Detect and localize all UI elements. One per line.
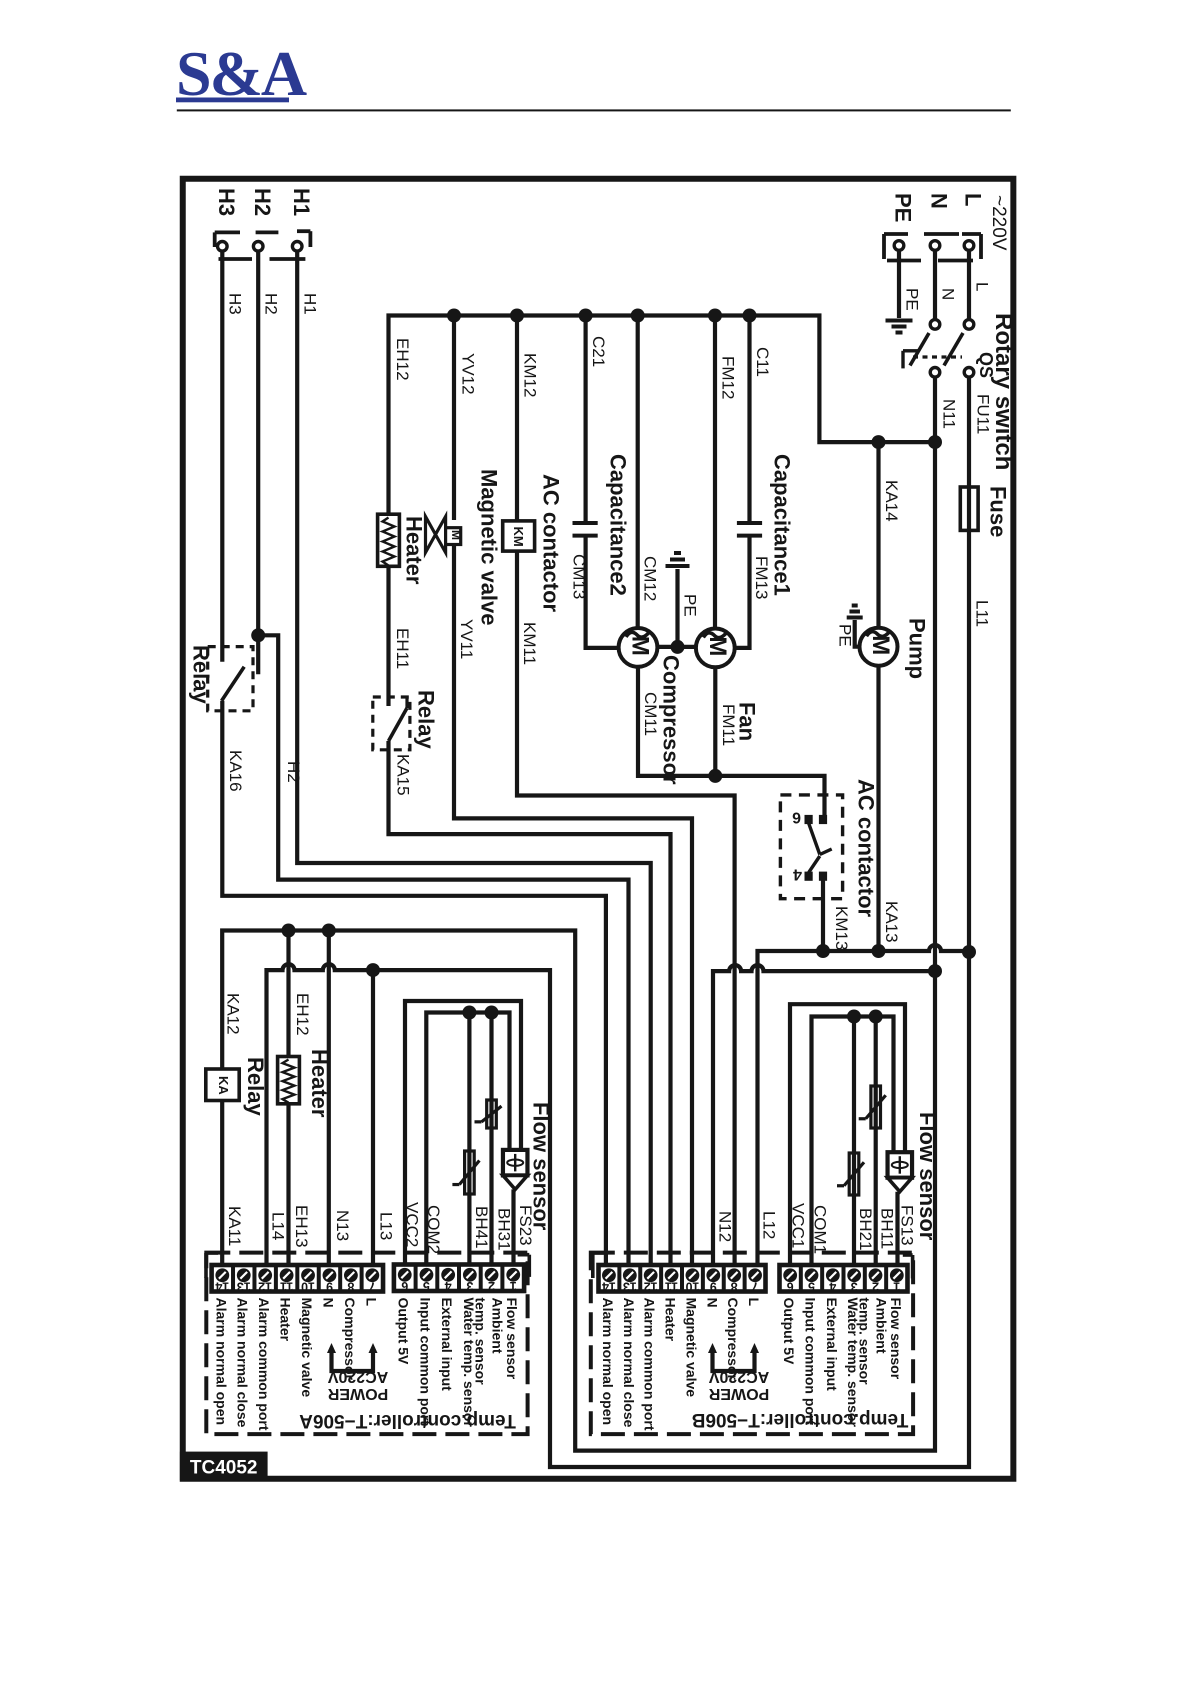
svg-text:3: 3 bbox=[466, 1279, 473, 1293]
wire FS13 to terminal 1 bbox=[895, 1192, 899, 1265]
svg-text:Magnetic valve: Magnetic valve bbox=[683, 1298, 699, 1398]
svg-text:6: 6 bbox=[792, 809, 801, 826]
wire KM12 bbox=[515, 316, 519, 523]
svg-text:Output 5V: Output 5V bbox=[781, 1298, 797, 1366]
svg-text:10: 10 bbox=[685, 1279, 699, 1293]
svg-text:11: 11 bbox=[665, 1279, 678, 1293]
header rule bbox=[177, 109, 1011, 111]
svg-text:L11: L11 bbox=[973, 600, 992, 627]
svg-text:Flow sensor: Flow sensor bbox=[888, 1298, 904, 1380]
svg-text:Heater: Heater bbox=[402, 516, 427, 585]
svg-text:9: 9 bbox=[326, 1279, 333, 1293]
temp controller T-506B dashed box bbox=[591, 1253, 913, 1435]
junction dot H2 branch bbox=[251, 628, 265, 642]
wire L bus A with hop over N11 bbox=[758, 945, 970, 1265]
thermistor BH21 bbox=[849, 1153, 859, 1195]
svg-text:Output 5V: Output 5V bbox=[396, 1298, 412, 1366]
svg-text:8: 8 bbox=[347, 1279, 354, 1293]
wire KA14 pump feed bbox=[876, 442, 880, 628]
svg-text:PE: PE bbox=[681, 594, 700, 617]
AC contactor KM13 dashed box bbox=[780, 795, 842, 899]
svg-text:M: M bbox=[867, 635, 894, 655]
junction dot bus C N13 branch bbox=[322, 924, 336, 938]
svg-text:EH11: EH11 bbox=[393, 628, 412, 669]
svg-text:Compressor: Compressor bbox=[659, 655, 684, 785]
svg-text:EH12: EH12 bbox=[293, 993, 312, 1036]
rotary switch QS contact L1 bbox=[964, 320, 974, 330]
POWER AC220V arrows bbox=[332, 1352, 374, 1371]
junction dot BH21 bbox=[847, 1010, 861, 1024]
svg-text:Fuse: Fuse bbox=[986, 486, 1011, 537]
wire H2 jog to controller B bbox=[258, 635, 628, 1265]
svg-text:CM11: CM11 bbox=[641, 692, 660, 736]
svg-text:temp. sensor: temp. sensor bbox=[473, 1298, 489, 1386]
svg-text:FU11: FU11 bbox=[974, 394, 993, 434]
svg-text:YV11: YV11 bbox=[457, 619, 476, 659]
terminal H3 bbox=[218, 242, 228, 252]
svg-text:12: 12 bbox=[644, 1279, 658, 1293]
svg-text:10: 10 bbox=[301, 1279, 315, 1293]
pump PE ground bbox=[855, 620, 860, 647]
wire KA15 to controller B heater terminal bbox=[389, 741, 671, 1265]
svg-text:POWER: POWER bbox=[708, 1385, 769, 1402]
contactor coil KM box bbox=[503, 521, 535, 551]
wire H2 with branch bbox=[256, 251, 260, 674]
svg-text:AC220V: AC220V bbox=[708, 1368, 769, 1385]
wire L from terminal to switch bbox=[967, 251, 971, 320]
junction dot bus C heater branch bbox=[282, 924, 296, 938]
heater EH12 bottom symbol bbox=[278, 1057, 300, 1104]
svg-text:FS13: FS13 bbox=[898, 1205, 917, 1246]
controller A terminal block 14-7 bbox=[212, 1265, 383, 1292]
junction dot FM12 bbox=[708, 309, 722, 323]
svg-text:CM12: CM12 bbox=[641, 556, 660, 601]
svg-text:11: 11 bbox=[280, 1279, 293, 1293]
flow sensor FS13 symbol bbox=[888, 1152, 913, 1178]
svg-text:5: 5 bbox=[808, 1279, 815, 1293]
junction dot BH31 bbox=[485, 1006, 499, 1020]
svg-text:Temp.controller:T−506A: Temp.controller:T−506A bbox=[299, 1410, 516, 1431]
svg-text:Ambient: Ambient bbox=[873, 1298, 889, 1354]
wire N11 long down to bottom wrap bbox=[222, 377, 935, 1450]
magnetic valve symbol bbox=[426, 517, 436, 553]
svg-text:AC220V: AC220V bbox=[327, 1368, 388, 1385]
svg-text:4: 4 bbox=[793, 866, 802, 883]
relay KA16 dashed box bbox=[208, 647, 253, 711]
svg-text:L12: L12 bbox=[760, 1211, 779, 1239]
svg-text:KA15: KA15 bbox=[394, 754, 413, 796]
terminal brackets H group bbox=[213, 232, 217, 247]
wire KA13 pump to L bus bbox=[876, 666, 880, 951]
svg-text:6: 6 bbox=[401, 1279, 408, 1293]
svg-text:Relay: Relay bbox=[189, 645, 214, 704]
TC4052 title block bbox=[180, 1452, 268, 1481]
svg-text:Flow sensor: Flow sensor bbox=[529, 1102, 554, 1231]
svg-text:H2: H2 bbox=[284, 761, 303, 783]
wire KA16 to controller B alarm terminal bbox=[222, 701, 606, 1265]
pump motor bbox=[860, 628, 898, 666]
svg-text:H3: H3 bbox=[226, 293, 245, 315]
wire right N bus with hops bbox=[713, 965, 935, 1265]
wire BH41 thermistor branch bbox=[467, 1013, 471, 1266]
svg-text:Magnetic valve: Magnetic valve bbox=[299, 1298, 315, 1398]
svg-text:8: 8 bbox=[731, 1279, 738, 1293]
svg-text:4: 4 bbox=[445, 1279, 452, 1293]
KM13 contact arms bbox=[809, 823, 820, 854]
wire YV11 to controller B bbox=[454, 545, 692, 1266]
wire CM12 bbox=[636, 316, 640, 631]
capacitor C11 Capacitance1 bbox=[737, 521, 762, 525]
wire VCC1 bbox=[790, 1004, 905, 1265]
junction dot C11 bbox=[743, 309, 757, 323]
svg-text:FM13: FM13 bbox=[752, 556, 771, 599]
svg-text:H2: H2 bbox=[250, 188, 275, 216]
svg-text:L: L bbox=[973, 282, 992, 291]
svg-text:N11: N11 bbox=[940, 399, 959, 429]
svg-text:AC contactor: AC contactor bbox=[854, 779, 879, 918]
svg-text:4: 4 bbox=[829, 1279, 836, 1293]
svg-text:PE: PE bbox=[903, 288, 922, 311]
wire heater EH12 branch bbox=[286, 931, 290, 1059]
junction dot bus A at L11 bbox=[962, 945, 976, 959]
wire FM12 bbox=[713, 316, 717, 631]
svg-text:Flow sensor: Flow sensor bbox=[504, 1298, 520, 1380]
svg-text:BH31: BH31 bbox=[495, 1208, 514, 1251]
thermistor BH31 bbox=[487, 1100, 497, 1128]
junction dot KM12 bbox=[510, 309, 524, 323]
wire KM11 to controller B compressor terminal bbox=[517, 551, 735, 1265]
wire EH13 to terminal 11 bbox=[286, 1104, 290, 1265]
svg-text:EH12: EH12 bbox=[393, 338, 412, 381]
svg-text:EH13: EH13 bbox=[292, 1205, 311, 1248]
svg-text:L: L bbox=[961, 193, 986, 206]
svg-text:N: N bbox=[704, 1298, 720, 1308]
svg-text:1: 1 bbox=[510, 1279, 517, 1293]
svg-text:1: 1 bbox=[893, 1279, 900, 1293]
svg-text:External input: External input bbox=[439, 1298, 455, 1392]
svg-text:~220V: ~220V bbox=[988, 195, 1009, 251]
svg-text:Pump: Pump bbox=[905, 618, 930, 679]
terminal PE bbox=[894, 241, 904, 251]
junction dot L13 at left L bus bbox=[366, 963, 380, 977]
wire PE to ground bbox=[897, 251, 901, 319]
wire BH31 thermistor branch bbox=[489, 1013, 493, 1266]
svg-text:H1: H1 bbox=[301, 293, 320, 315]
svg-text:Relay: Relay bbox=[414, 690, 439, 749]
svg-text:C21: C21 bbox=[589, 336, 608, 367]
wire fan bottom bbox=[713, 667, 717, 776]
wire C11 upper bbox=[747, 316, 751, 524]
svg-text:H1: H1 bbox=[289, 188, 314, 216]
wire KM13 out to L bus bbox=[821, 880, 825, 951]
svg-text:Temp.controller:T−506B: Temp.controller:T−506B bbox=[692, 1409, 909, 1430]
wire L13 to terminal 7 bbox=[371, 970, 375, 1265]
svg-text:2: 2 bbox=[488, 1279, 495, 1293]
switch arm N bbox=[910, 333, 929, 366]
wire EH11 to relay KA15 bbox=[386, 566, 390, 706]
svg-text:2: 2 bbox=[872, 1279, 879, 1293]
junction dot N11 at N bus bbox=[928, 964, 942, 978]
svg-text:Magnetic valve: Magnetic valve bbox=[477, 469, 502, 626]
svg-text:YV12: YV12 bbox=[459, 353, 478, 395]
svg-text:KM11: KM11 bbox=[520, 622, 539, 665]
svg-text:POWER: POWER bbox=[327, 1385, 388, 1402]
wire COM2 bbox=[426, 1013, 509, 1266]
svg-text:FM12: FM12 bbox=[719, 356, 738, 399]
ground PE power entry bbox=[886, 319, 913, 323]
svg-text:N13: N13 bbox=[333, 1210, 352, 1241]
svg-text:KM13: KM13 bbox=[832, 906, 851, 950]
thermistor BH41 bbox=[465, 1151, 475, 1194]
junction dot BH41 bbox=[462, 1006, 476, 1020]
wire compressor bottom to KM13 bbox=[638, 667, 825, 816]
svg-text:M: M bbox=[627, 636, 654, 656]
wire compressor to fan bbox=[657, 645, 696, 649]
svg-text:9: 9 bbox=[710, 1279, 717, 1293]
svg-text:L: L bbox=[746, 1298, 762, 1307]
relay KA16 arm bbox=[222, 667, 245, 701]
wire VCC2 bbox=[405, 1001, 521, 1265]
junction dot CM12 bbox=[631, 309, 645, 323]
svg-text:BH21: BH21 bbox=[856, 1208, 875, 1251]
svg-text:AC contactor: AC contactor bbox=[539, 474, 564, 613]
svg-text:KM12: KM12 bbox=[521, 353, 540, 397]
svg-text:L14: L14 bbox=[269, 1212, 288, 1240]
svg-text:Heater: Heater bbox=[663, 1298, 679, 1342]
svg-text:KA12: KA12 bbox=[224, 993, 243, 1035]
wire L11 bottom wrap to left controller bbox=[267, 952, 970, 1467]
rotary switch QS contact N2 bbox=[930, 368, 940, 378]
switch link bracket bbox=[901, 351, 904, 369]
junction dot BH11 bbox=[869, 1010, 883, 1024]
svg-text:7: 7 bbox=[752, 1279, 759, 1293]
wire N13 to terminal 9 bbox=[327, 931, 331, 1266]
controller B terminal block 6-1 bbox=[780, 1265, 908, 1292]
wire C21 upper bbox=[583, 316, 587, 524]
temp controller T-506A dashed box bbox=[206, 1253, 527, 1435]
svg-text:KM: KM bbox=[511, 527, 526, 547]
relay KA coil box bbox=[206, 1069, 239, 1101]
svg-text:3: 3 bbox=[851, 1279, 858, 1293]
svg-text:KA14: KA14 bbox=[882, 480, 901, 522]
fuse FU11 bbox=[960, 487, 978, 530]
svg-text:14: 14 bbox=[602, 1279, 616, 1293]
terminal H2 bbox=[253, 242, 263, 252]
terminal strip brackets bbox=[204, 1253, 208, 1278]
svg-text:N: N bbox=[320, 1298, 336, 1308]
svg-text:14: 14 bbox=[215, 1279, 229, 1293]
svg-text:Capacitance2: Capacitance2 bbox=[606, 454, 631, 596]
svg-text:CM13: CM13 bbox=[570, 554, 589, 599]
svg-text:N: N bbox=[939, 288, 958, 300]
controller A terminal block 6-1 bbox=[394, 1265, 524, 1292]
terminal brackets power entry bbox=[882, 234, 886, 259]
relay KA15 dashed box bbox=[373, 697, 410, 750]
svg-text:C11: C11 bbox=[753, 347, 772, 377]
svg-text:Ambient: Ambient bbox=[490, 1298, 506, 1354]
wire top bus bbox=[389, 316, 936, 515]
svg-text:7: 7 bbox=[369, 1279, 376, 1293]
svg-text:L13: L13 bbox=[377, 1212, 396, 1240]
svg-text:Relay: Relay bbox=[243, 1057, 268, 1116]
svg-text:KA16: KA16 bbox=[226, 750, 245, 792]
svg-text:Flow sensor: Flow sensor bbox=[915, 1112, 940, 1241]
drawing border frame bbox=[183, 179, 1014, 1479]
svg-text:13: 13 bbox=[237, 1279, 251, 1293]
svg-text:TC4052: TC4052 bbox=[190, 1458, 258, 1479]
junction dot fan bottom bbox=[708, 769, 722, 783]
terminal N bbox=[930, 241, 940, 251]
svg-text:BH11: BH11 bbox=[878, 1208, 897, 1249]
flow sensor FS23 symbol bbox=[503, 1150, 528, 1176]
junction dot N11 bus bbox=[928, 435, 942, 449]
junction dot C21 bbox=[579, 309, 593, 323]
junction dot KA14 tap bbox=[872, 435, 886, 449]
svg-text:COM2: COM2 bbox=[424, 1205, 443, 1254]
svg-text:N: N bbox=[927, 193, 952, 209]
wire L11 long bbox=[967, 377, 971, 953]
svg-text:Capacitance1: Capacitance1 bbox=[770, 454, 795, 596]
svg-text:M: M bbox=[449, 530, 463, 540]
svg-text:13: 13 bbox=[623, 1279, 637, 1293]
wire KA11 coil to terminal 14 bbox=[220, 1101, 224, 1266]
svg-text:6: 6 bbox=[787, 1279, 794, 1293]
svg-text:Alarm normal close: Alarm normal close bbox=[235, 1298, 251, 1428]
wire BH11 thermistor branch bbox=[874, 1017, 878, 1266]
fan motor FM11 bbox=[696, 629, 735, 668]
rotary switch QS contact L2 bbox=[964, 368, 974, 378]
svg-text:H2: H2 bbox=[262, 293, 281, 315]
svg-text:KA: KA bbox=[216, 1076, 231, 1095]
controller B terminal block 14-7 bbox=[599, 1265, 766, 1292]
POWER AC220V arrows bbox=[713, 1352, 755, 1371]
svg-text:N12: N12 bbox=[716, 1211, 735, 1242]
junction dot KM13 at bus A bbox=[816, 944, 830, 958]
svg-text:COM1: COM1 bbox=[811, 1205, 830, 1254]
svg-text:Heater: Heater bbox=[278, 1298, 294, 1342]
svg-text:KA11: KA11 bbox=[225, 1206, 244, 1246]
wire CM13 to compressor bbox=[586, 536, 619, 648]
svg-text:PE: PE bbox=[836, 624, 855, 647]
svg-text:5: 5 bbox=[423, 1279, 430, 1293]
wire BH21 thermistor branch bbox=[852, 1017, 856, 1266]
rotary switch QS contact N1 bbox=[930, 320, 940, 330]
svg-text:Alarm common port: Alarm common port bbox=[256, 1298, 272, 1431]
svg-text:FM11: FM11 bbox=[719, 704, 738, 746]
compressor PE ground stub bbox=[675, 569, 679, 647]
svg-text:Alarm normal open: Alarm normal open bbox=[213, 1298, 229, 1426]
svg-text:External input: External input bbox=[824, 1298, 840, 1392]
wire H3 to relay bbox=[220, 251, 224, 661]
wire H1 bbox=[297, 251, 651, 1265]
junction dot KA13 at bus A bbox=[872, 944, 886, 958]
svg-text:VCC1: VCC1 bbox=[789, 1203, 808, 1248]
thermistor BH11 bbox=[871, 1086, 881, 1128]
terminal L bbox=[964, 241, 974, 251]
svg-text:KA13: KA13 bbox=[882, 901, 901, 943]
heater EH top symbol bbox=[378, 514, 400, 566]
svg-text:PE: PE bbox=[891, 193, 916, 222]
junction dot compressor PE bbox=[671, 640, 685, 654]
svg-text:Rotary switch: Rotary switch bbox=[990, 313, 1017, 470]
wire YV12 bbox=[452, 316, 456, 521]
svg-text:temp. sensor: temp. sensor bbox=[856, 1298, 872, 1386]
wire FM13 to fan bbox=[735, 536, 750, 648]
compressor motor CM11 bbox=[619, 628, 658, 667]
svg-text:VCC2: VCC2 bbox=[403, 1202, 422, 1247]
svg-text:M: M bbox=[704, 636, 731, 656]
wire COM1 bbox=[812, 1017, 894, 1266]
svg-text:Alarm common port: Alarm common port bbox=[642, 1298, 658, 1431]
svg-text:Input common port: Input common port bbox=[802, 1298, 818, 1426]
relay KA15 arm bbox=[389, 708, 408, 741]
capacitor C21 Capacitance2 bbox=[573, 521, 598, 525]
switch mechanical link dashed bbox=[913, 355, 962, 358]
KM13 contact squares bbox=[805, 815, 812, 823]
wire FS23 to terminal 1 bbox=[511, 1189, 515, 1265]
wire N from terminal to switch bbox=[933, 251, 937, 320]
svg-text:L: L bbox=[363, 1298, 379, 1307]
svg-text:Input common port: Input common port bbox=[417, 1298, 433, 1426]
svg-text:12: 12 bbox=[258, 1279, 272, 1293]
svg-text:Alarm normal close: Alarm normal close bbox=[621, 1298, 637, 1428]
terminal H1 bbox=[292, 242, 302, 252]
junction dot YV12 bbox=[447, 309, 461, 323]
svg-text:Alarm normal open: Alarm normal open bbox=[600, 1298, 616, 1426]
switch arm L bbox=[944, 333, 963, 366]
svg-text:BH41: BH41 bbox=[472, 1206, 491, 1249]
svg-text:H3: H3 bbox=[214, 188, 239, 216]
